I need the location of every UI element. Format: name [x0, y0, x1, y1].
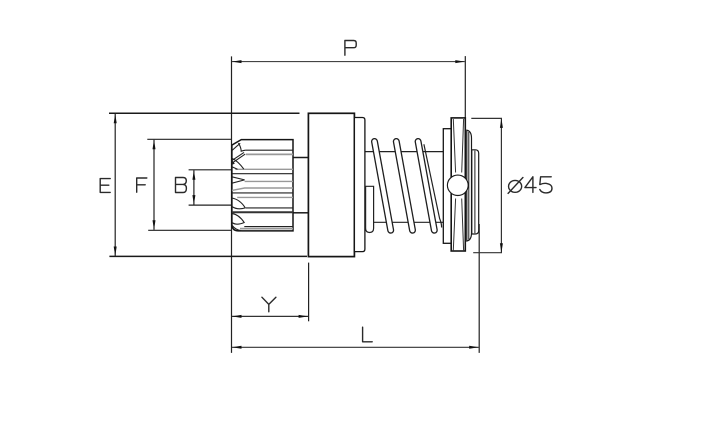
- gear chamfer dark wedge: [232, 160, 235, 165]
- label B: [176, 178, 187, 193]
- wire: extension line F bottom: [148, 229, 231, 231]
- gear tooth line y173.7: [232, 173, 293, 175]
- gear tooth root line y181.4: [245, 180, 293, 182]
- arrow L left: [232, 346, 242, 349]
- rear collar A: [467, 130, 472, 241]
- arrow B bottom: [192, 195, 195, 205]
- dimension line E: [114, 114, 116, 256]
- wire: extension line B bottom: [189, 204, 231, 206]
- gear tooth line y207.9: [246, 207, 293, 209]
- label Y: [262, 297, 276, 312]
- wire: extension line B top: [189, 169, 231, 171]
- dimension line B: [193, 170, 195, 204]
- wire: extension line L right (rear collar): [478, 224, 480, 353]
- roller ball (ellipse): [447, 175, 468, 195]
- dimension line F: [153, 140, 155, 230]
- label digit 5: [540, 177, 552, 193]
- wire: extension line Y right (cylinder left face): [308, 263, 310, 322]
- gear chamfer double facet edge: [232, 152, 245, 162]
- wire: extension line right for P (flange right): [464, 56, 466, 118]
- rear collar A inner edge: [468, 132, 470, 240]
- arrow Y right: [299, 315, 309, 318]
- wire: extension line E bottom: [109, 255, 307, 257]
- cylinder lip/step: [354, 118, 365, 252]
- hub upper edge between gear and cylinder: [293, 157, 308, 159]
- gear tooth root line y154: [246, 153, 293, 155]
- gear chamfer facet 3 triangle: [232, 177, 245, 183]
- arrow P right: [455, 60, 465, 63]
- dimension line Y: [232, 315, 308, 317]
- gear tooth line y169: [235, 168, 293, 170]
- gear chamfer facet 2: [232, 158, 244, 169]
- label F: [137, 178, 147, 192]
- arrow F top: [153, 140, 156, 150]
- spring coil 2: [396, 142, 412, 231]
- arrow Y left: [232, 315, 242, 318]
- dimension line L: [232, 346, 479, 348]
- gear tooth line y150: [245, 149, 293, 151]
- gear tooth line y212.3 thick: [232, 211, 293, 213]
- rear collar B inner edge: [474, 151, 476, 234]
- retainer washer: [443, 129, 451, 244]
- wire: extension line left (gear left face, shared by P/Y/L): [231, 56, 233, 353]
- label diameter symbol: [508, 178, 523, 194]
- gear chamfer facet 4 rounded beak: [232, 198, 245, 209]
- arrow D45 top: [500, 118, 503, 128]
- spring coil 3: [418, 142, 434, 231]
- arrow P left: [232, 60, 242, 63]
- label digit 4: [525, 177, 536, 193]
- spring end coil (left, seated on cylinder): [366, 186, 374, 232]
- gear chamfer facet 5 rounded beak: [232, 213, 244, 224]
- label L: [363, 327, 373, 342]
- arrow B top: [192, 170, 195, 180]
- hub lower edge between gear and cylinder: [293, 212, 308, 214]
- gear tooth line y188 with diagonal lead: [232, 188, 293, 190]
- pinion gear body outline: [232, 140, 293, 231]
- clutch housing cylinder: [308, 113, 354, 256]
- gear tooth root line y228.6: [240, 228, 293, 230]
- arrow F bottom: [153, 220, 156, 230]
- flange bowtie shading lines: [453, 119, 463, 250]
- shaft sleeve bottom edge: [373, 221, 444, 223]
- spring coil 1: [375, 142, 391, 231]
- label E: [100, 179, 110, 193]
- gear tooth line y226.6: [244, 226, 293, 228]
- dimension line D45 with bent extension: [471, 118, 501, 252]
- arrow E top: [114, 114, 117, 124]
- dimension line P: [232, 61, 465, 63]
- arrow L right: [469, 346, 479, 349]
- shaft sleeve top edge: [364, 151, 444, 153]
- wire: extension line E top: [109, 112, 300, 114]
- gear chamfer facet 1 lead curves: [232, 143, 246, 151]
- gear bottom corner inner curve: [232, 226, 242, 231]
- drive flange plate: [451, 118, 465, 251]
- gear tooth root line y197.4: [237, 196, 293, 198]
- wire: extension line F top: [147, 138, 231, 140]
- label P: [345, 41, 356, 56]
- arrow E bottom: [114, 247, 117, 257]
- gear tooth line y192.9: [232, 192, 293, 194]
- spring end wire (right, against retainer washer): [424, 144, 442, 227]
- arrow D45 bottom: [500, 243, 503, 253]
- rear collar B: [472, 150, 479, 234]
